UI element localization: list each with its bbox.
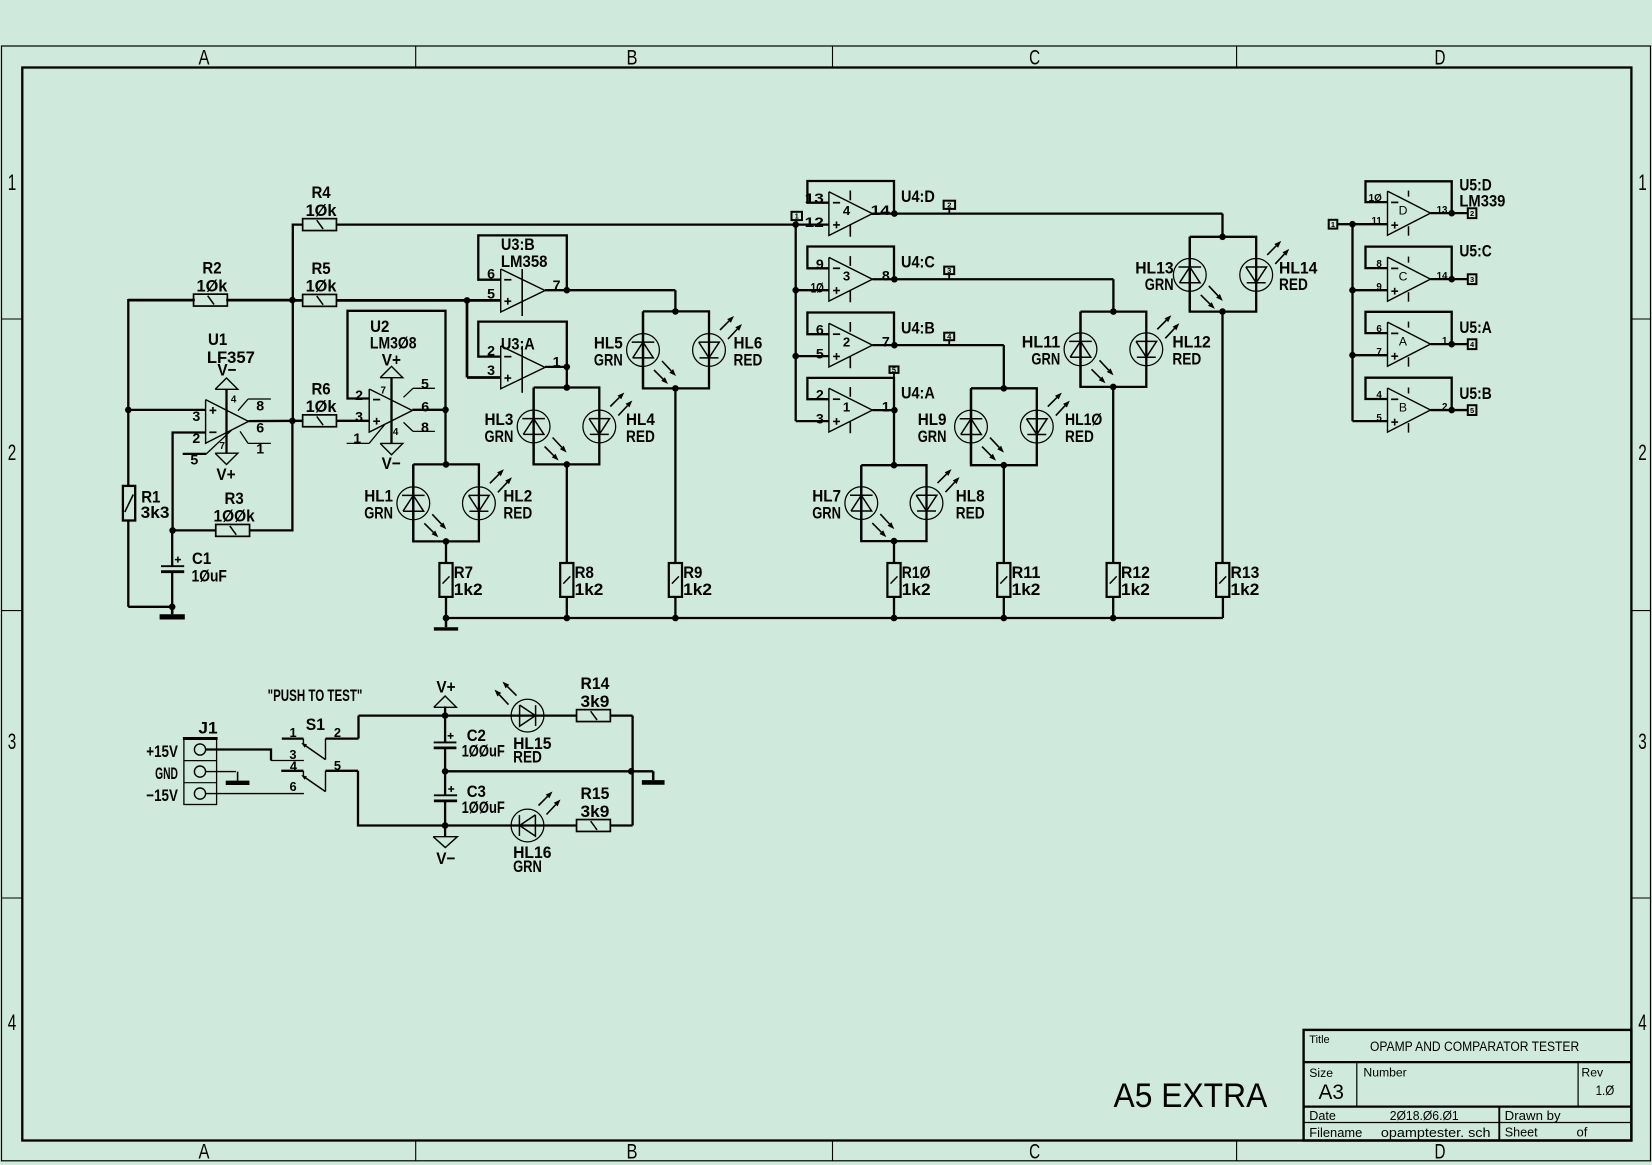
- svg-text:R2: R2: [202, 259, 221, 278]
- svg-text:B: B: [627, 1140, 638, 1164]
- svg-text:R13: R13: [1231, 563, 1260, 582]
- svg-text:LM3Ø8: LM3Ø8: [370, 333, 417, 352]
- svg-text:3k9: 3k9: [581, 802, 610, 821]
- svg-text:"PUSH TO TEST": "PUSH TO TEST": [268, 686, 363, 705]
- svg-text:LM339: LM339: [1459, 192, 1505, 211]
- svg-text:1ØØuF: 1ØØuF: [462, 798, 505, 817]
- svg-text:R7: R7: [454, 563, 473, 582]
- svg-text:U5:B: U5:B: [1459, 384, 1491, 403]
- svg-text:U3:A: U3:A: [501, 335, 535, 354]
- svg-text:1k2: 1k2: [1012, 580, 1041, 599]
- svg-text:RED: RED: [503, 504, 532, 523]
- svg-text:Rev: Rev: [1581, 1066, 1604, 1080]
- svg-text:C: C: [1029, 1140, 1040, 1164]
- svg-text:Filename: Filename: [1309, 1126, 1362, 1140]
- svg-text:5: 5: [1470, 406, 1474, 415]
- svg-text:−15V: −15V: [146, 786, 178, 805]
- svg-text:U4:C: U4:C: [901, 253, 935, 272]
- svg-text:2: 2: [8, 440, 17, 465]
- svg-text:8: 8: [256, 399, 264, 415]
- svg-text:GRN: GRN: [485, 427, 514, 446]
- svg-text:1k2: 1k2: [575, 580, 604, 599]
- svg-text:5: 5: [421, 377, 429, 393]
- svg-text:A3: A3: [1319, 1081, 1344, 1104]
- svg-text:5: 5: [487, 286, 495, 302]
- svg-text:1: 1: [1442, 336, 1448, 347]
- svg-text:U5:A: U5:A: [1459, 318, 1491, 337]
- svg-text:A: A: [1399, 335, 1408, 349]
- svg-text:4: 4: [393, 427, 399, 438]
- svg-text:R6: R6: [311, 379, 330, 398]
- svg-text:Date: Date: [1309, 1109, 1336, 1123]
- svg-text:1k2: 1k2: [1231, 580, 1260, 599]
- svg-text:Sheet: Sheet: [1505, 1125, 1538, 1140]
- svg-text:13: 13: [1437, 205, 1448, 216]
- svg-text:GRN: GRN: [918, 427, 947, 446]
- svg-text:1Øk: 1Øk: [306, 397, 337, 416]
- svg-text:4: 4: [1376, 390, 1382, 401]
- svg-text:2: 2: [334, 725, 341, 740]
- svg-text:R3: R3: [225, 489, 244, 508]
- svg-text:14: 14: [1437, 271, 1448, 282]
- svg-text:V+: V+: [382, 351, 401, 370]
- svg-text:14: 14: [871, 203, 890, 219]
- svg-text:RED: RED: [956, 503, 985, 522]
- svg-text:3k9: 3k9: [581, 692, 610, 711]
- svg-text:1: 1: [553, 355, 561, 371]
- svg-text:12: 12: [805, 215, 824, 231]
- svg-text:8: 8: [882, 269, 890, 285]
- svg-text:C: C: [1399, 270, 1408, 284]
- svg-text:V+: V+: [436, 677, 455, 696]
- svg-text:GRN: GRN: [513, 857, 542, 876]
- svg-text:Number: Number: [1363, 1066, 1406, 1080]
- svg-text:3: 3: [8, 729, 17, 754]
- svg-text:6: 6: [289, 779, 296, 794]
- svg-text:2Ø18.Ø6.Ø1: 2Ø18.Ø6.Ø1: [1390, 1108, 1459, 1123]
- svg-text:A: A: [199, 46, 211, 70]
- svg-text:1k2: 1k2: [683, 580, 712, 599]
- svg-text:GRN: GRN: [1031, 350, 1060, 369]
- svg-text:7: 7: [381, 386, 387, 397]
- svg-text:GRN: GRN: [812, 503, 841, 522]
- svg-text:1: 1: [882, 399, 890, 415]
- svg-text:V−: V−: [436, 849, 455, 868]
- svg-text:D: D: [1399, 204, 1408, 218]
- svg-text:1k2: 1k2: [902, 580, 931, 599]
- svg-text:2: 2: [1442, 402, 1448, 413]
- svg-text:RED: RED: [1279, 275, 1308, 294]
- svg-text:RED: RED: [1065, 427, 1094, 446]
- svg-text:7: 7: [1376, 347, 1382, 358]
- svg-text:1ØØuF: 1ØØuF: [462, 741, 505, 760]
- svg-text:2: 2: [1638, 440, 1647, 465]
- svg-text:2: 2: [947, 201, 951, 210]
- svg-text:3k3: 3k3: [141, 503, 170, 522]
- svg-text:3: 3: [947, 266, 951, 275]
- svg-text:2: 2: [816, 388, 824, 404]
- svg-text:3: 3: [487, 363, 495, 379]
- svg-text:7: 7: [882, 334, 890, 350]
- svg-text:4: 4: [290, 759, 298, 774]
- svg-text:B: B: [1399, 400, 1407, 414]
- svg-text:RED: RED: [626, 427, 655, 446]
- svg-text:13: 13: [805, 191, 824, 207]
- svg-text:GND: GND: [155, 764, 178, 783]
- svg-text:RED: RED: [734, 350, 763, 369]
- svg-text:GRN: GRN: [1145, 275, 1174, 294]
- svg-text:1ØuF: 1ØuF: [192, 567, 227, 586]
- svg-text:2: 2: [487, 344, 495, 360]
- svg-text:4: 4: [1638, 1010, 1647, 1035]
- svg-text:4: 4: [8, 1010, 17, 1035]
- svg-text:9: 9: [816, 257, 824, 273]
- svg-text:R1Ø: R1Ø: [902, 563, 931, 582]
- svg-text:8: 8: [421, 420, 429, 436]
- svg-text:D: D: [1435, 1140, 1446, 1164]
- svg-text:D: D: [1435, 46, 1446, 70]
- svg-text:3: 3: [843, 268, 850, 283]
- svg-text:1: 1: [256, 441, 264, 457]
- svg-text:1Ø: 1Ø: [1369, 193, 1383, 204]
- svg-text:3: 3: [355, 410, 363, 426]
- svg-text:6: 6: [1376, 324, 1382, 335]
- svg-text:GRN: GRN: [364, 504, 393, 523]
- svg-text:R5: R5: [311, 259, 330, 278]
- svg-text:1: 1: [1638, 170, 1647, 195]
- svg-text:OPAMP AND COMPARATOR TESTER: OPAMP AND COMPARATOR TESTER: [1370, 1039, 1579, 1055]
- svg-text:1Øk: 1Øk: [306, 201, 337, 220]
- svg-text:R15: R15: [581, 784, 610, 803]
- svg-text:V−: V−: [382, 454, 401, 473]
- svg-text:1k2: 1k2: [454, 580, 483, 599]
- svg-text:2: 2: [192, 431, 200, 447]
- svg-text:U1: U1: [208, 330, 227, 349]
- svg-text:A: A: [199, 1140, 211, 1164]
- svg-text:1: 1: [289, 725, 296, 740]
- svg-text:opamptester. sch: opamptester. sch: [1381, 1125, 1491, 1140]
- svg-text:5: 5: [190, 453, 198, 469]
- svg-text:5: 5: [816, 347, 824, 363]
- svg-text:3: 3: [192, 409, 200, 425]
- svg-text:1Øk: 1Øk: [306, 277, 337, 296]
- svg-text:Size: Size: [1309, 1066, 1333, 1080]
- svg-text:5: 5: [334, 758, 341, 773]
- svg-text:C: C: [1029, 46, 1040, 70]
- svg-text:3: 3: [1638, 729, 1647, 754]
- svg-text:4: 4: [231, 395, 237, 406]
- svg-text:1k2: 1k2: [1121, 580, 1150, 599]
- svg-text:R9: R9: [683, 563, 702, 582]
- svg-text:1: 1: [353, 431, 361, 447]
- svg-text:1: 1: [1331, 220, 1335, 229]
- svg-text:Title: Title: [1309, 1034, 1329, 1046]
- svg-text:R12: R12: [1121, 563, 1150, 582]
- svg-text:8: 8: [1376, 259, 1382, 270]
- svg-text:1ØØk: 1ØØk: [214, 507, 256, 526]
- svg-text:of: of: [1577, 1125, 1588, 1140]
- svg-text:6: 6: [487, 267, 495, 283]
- svg-text:S1: S1: [306, 715, 325, 734]
- svg-text:4: 4: [843, 203, 851, 218]
- svg-text:6: 6: [256, 421, 264, 437]
- svg-text:RED: RED: [513, 748, 542, 767]
- svg-text:Drawn by: Drawn by: [1505, 1108, 1561, 1123]
- svg-text:A5 EXTRA: A5 EXTRA: [1114, 1077, 1268, 1115]
- svg-text:R8: R8: [575, 563, 594, 582]
- svg-text:1: 1: [843, 399, 850, 414]
- svg-text:+15V: +15V: [146, 742, 178, 761]
- svg-text:U4:A: U4:A: [901, 383, 935, 402]
- svg-text:7: 7: [220, 441, 226, 452]
- svg-text:V−: V−: [217, 360, 236, 379]
- svg-text:1Ø: 1Ø: [811, 281, 824, 297]
- svg-text:3: 3: [1470, 275, 1474, 284]
- svg-text:LM358: LM358: [501, 252, 548, 271]
- svg-text:C1: C1: [192, 549, 211, 568]
- svg-text:1Øk: 1Øk: [197, 276, 228, 295]
- svg-text:1: 1: [795, 212, 799, 221]
- svg-text:U5:C: U5:C: [1459, 241, 1491, 260]
- svg-text:B: B: [627, 46, 638, 70]
- svg-text:2: 2: [355, 388, 363, 404]
- svg-text:6: 6: [816, 323, 824, 339]
- svg-text:7: 7: [553, 278, 561, 294]
- svg-text:R4: R4: [311, 183, 331, 202]
- svg-text:3: 3: [816, 412, 824, 428]
- svg-text:11: 11: [1371, 216, 1382, 227]
- svg-text:2: 2: [843, 334, 850, 349]
- svg-text:R11: R11: [1012, 563, 1041, 582]
- svg-text:R14: R14: [581, 674, 610, 693]
- svg-text:2: 2: [1470, 209, 1474, 218]
- svg-text:RED: RED: [1172, 350, 1201, 369]
- svg-text:GRN: GRN: [594, 350, 623, 369]
- svg-text:5: 5: [1376, 413, 1382, 424]
- svg-text:V+: V+: [216, 465, 235, 484]
- svg-text:1.Ø: 1.Ø: [1596, 1083, 1615, 1098]
- svg-text:1: 1: [8, 170, 17, 195]
- svg-text:9: 9: [1376, 282, 1382, 293]
- svg-text:U4:D: U4:D: [901, 187, 935, 206]
- svg-text:J1: J1: [198, 718, 217, 737]
- svg-text:U4:B: U4:B: [901, 318, 935, 337]
- svg-text:6: 6: [421, 399, 429, 415]
